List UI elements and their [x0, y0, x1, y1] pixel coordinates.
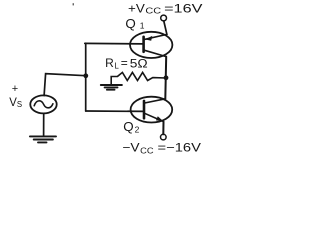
svg-text:=: = — [121, 56, 128, 70]
svg-text:+: + — [12, 83, 18, 95]
svg-text:5Ω: 5Ω — [130, 57, 148, 71]
svg-text:CC: CC — [145, 6, 161, 16]
svg-text:Q: Q — [123, 120, 134, 134]
svg-text:−V: −V — [122, 140, 139, 154]
svg-text:=−16V: =−16V — [158, 140, 201, 154]
svg-text:CC: CC — [140, 146, 153, 155]
svg-text:+V: +V — [128, 2, 145, 16]
svg-text:Q: Q — [125, 17, 136, 31]
svg-text:R: R — [105, 56, 114, 70]
svg-text:L: L — [114, 62, 119, 71]
svg-text:=16V: =16V — [164, 2, 202, 16]
svg-text:1: 1 — [140, 20, 145, 30]
svg-text:S: S — [17, 100, 22, 109]
svg-text:2: 2 — [135, 124, 140, 134]
